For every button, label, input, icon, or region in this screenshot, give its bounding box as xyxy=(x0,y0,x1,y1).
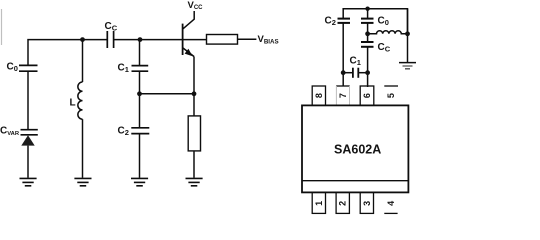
svg-text:8: 8 xyxy=(314,93,324,98)
svg-text:5: 5 xyxy=(386,93,396,98)
svg-text:C0: C0 xyxy=(7,61,18,73)
svg-text:C1: C1 xyxy=(350,56,361,68)
svg-text:3: 3 xyxy=(362,201,372,206)
svg-text:1: 1 xyxy=(314,201,324,206)
svg-text:6: 6 xyxy=(362,93,372,98)
svg-text:C1: C1 xyxy=(118,63,129,75)
svg-text:7: 7 xyxy=(338,93,348,98)
svg-text:4: 4 xyxy=(386,201,396,206)
svg-text:C0: C0 xyxy=(378,16,389,28)
svg-text:C2: C2 xyxy=(325,16,336,28)
svg-text:2: 2 xyxy=(338,201,348,206)
svg-text:CC: CC xyxy=(105,21,118,33)
svg-text:L: L xyxy=(70,98,76,109)
svg-text:CC: CC xyxy=(378,42,391,54)
svg-text:SA602A: SA602A xyxy=(334,143,381,157)
svg-text:C2: C2 xyxy=(118,126,129,138)
